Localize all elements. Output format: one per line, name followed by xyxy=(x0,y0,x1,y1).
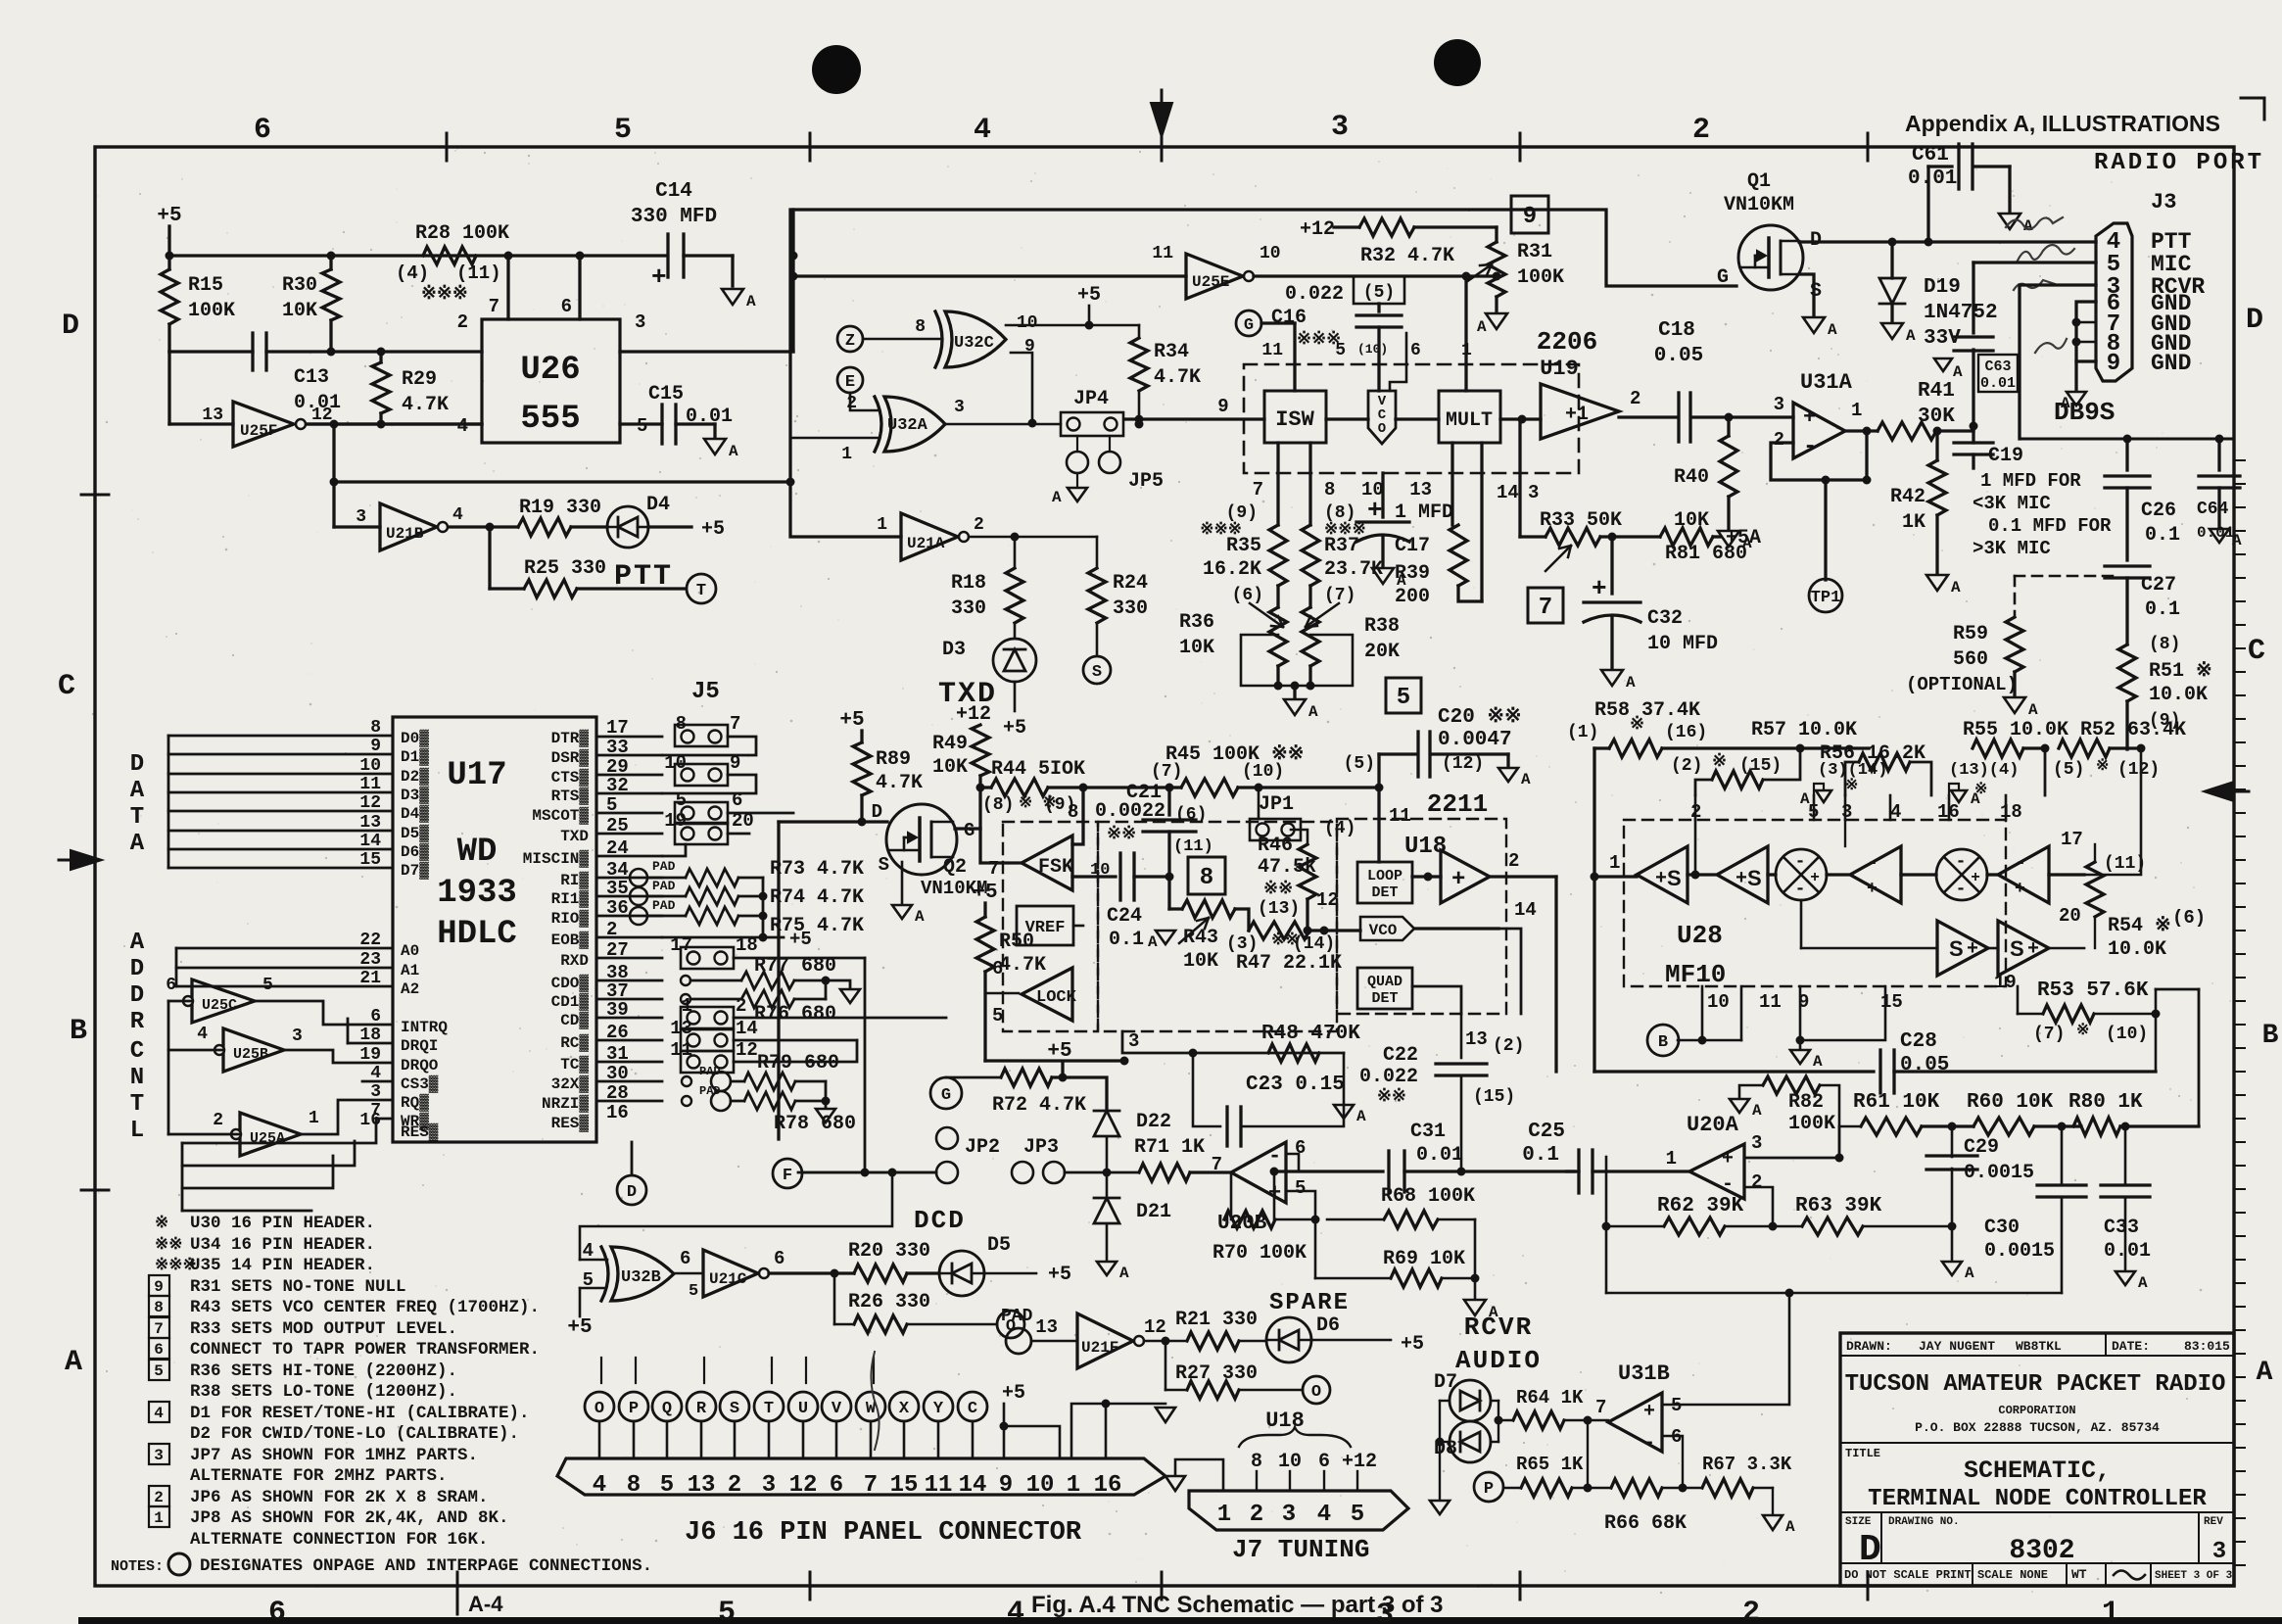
J6 terminal S xyxy=(720,1392,749,1421)
svg-text:JP3: JP3 xyxy=(1023,1136,1059,1159)
svg-text:R42: R42 xyxy=(1890,486,1925,508)
optional R59 dashed link xyxy=(2015,575,2116,578)
svg-text:A: A xyxy=(1477,318,1487,336)
svg-text:A: A xyxy=(1971,790,1980,808)
pot R33 xyxy=(1545,528,1600,546)
svg-text:SCHEMATIC,: SCHEMATIC, xyxy=(1964,1457,2111,1485)
jumper JP4 xyxy=(1061,412,1123,436)
svg-text:3: 3 xyxy=(1774,394,1784,415)
wire U31B output down xyxy=(1587,1420,1589,1488)
svg-text:U18: U18 xyxy=(1265,1409,1305,1433)
svg-text:U28: U28 xyxy=(1677,921,1723,950)
svg-text:+: + xyxy=(1643,1401,1655,1423)
J7 ground loop xyxy=(1175,1459,1223,1491)
svg-text:R31: R31 xyxy=(1517,241,1552,263)
U18 comparator triangle xyxy=(1441,850,1490,903)
mixer 2 xyxy=(1901,873,1936,876)
svg-text:DO NOT SCALE PRINT: DO NOT SCALE PRINT xyxy=(1844,1568,1972,1582)
resistor R37 xyxy=(1302,525,1319,586)
svg-text:U21A: U21A xyxy=(907,535,945,552)
wire CTS▓ stub xyxy=(596,774,662,777)
svg-text:D: D xyxy=(1859,1529,1881,1571)
svg-text:D7: D7 xyxy=(1434,1371,1457,1394)
svg-text:DET: DET xyxy=(1371,990,1398,1007)
svg-text:5: 5 xyxy=(262,976,273,995)
J3 DB9S connector body xyxy=(2096,223,2132,381)
svg-text:6: 6 xyxy=(830,1472,843,1499)
wire U32A out to JP4 xyxy=(945,423,1061,426)
dashed box cal region xyxy=(1098,822,1337,1031)
svg-text:R79 680: R79 680 xyxy=(757,1052,839,1075)
svg-text:23: 23 xyxy=(359,950,381,970)
wire E to U32A xyxy=(850,393,880,410)
wire F net xyxy=(802,1171,936,1174)
svg-text:0.1 MFD FOR: 0.1 MFD FOR xyxy=(1988,515,2112,537)
op amp U20B xyxy=(1231,1142,1286,1203)
svg-text:0.01: 0.01 xyxy=(2104,1240,2151,1263)
svg-text:R36: R36 xyxy=(1179,611,1214,634)
svg-text:+: + xyxy=(1810,869,1820,886)
svg-text:U30 16 PIN HEADER.: U30 16 PIN HEADER. xyxy=(190,1214,375,1233)
svg-text:R78 680: R78 680 xyxy=(774,1113,856,1135)
svg-text:C31: C31 xyxy=(1410,1121,1446,1143)
svg-text:TUCSON AMATEUR PACKET RADIO: TUCSON AMATEUR PACKET RADIO xyxy=(1845,1371,2226,1398)
wire MISCIN to TXD jumper xyxy=(662,844,686,856)
ground at C61 xyxy=(2008,167,2011,212)
svg-text:11: 11 xyxy=(1759,991,1782,1013)
ground floater near C63 xyxy=(1934,358,1952,371)
svg-text:+: + xyxy=(1735,868,1747,890)
svg-text:U26: U26 xyxy=(520,352,580,389)
svg-text:14: 14 xyxy=(359,832,381,851)
svg-text:6: 6 xyxy=(1410,341,1421,360)
svg-text:(2): (2) xyxy=(1493,1036,1524,1056)
inverter U21A xyxy=(901,513,958,560)
svg-text:+: + xyxy=(1803,406,1816,430)
svg-text:10.0K: 10.0K xyxy=(2108,938,2166,961)
svg-text:RXD: RXD xyxy=(560,952,589,970)
pin 11 wire into loop det xyxy=(1377,788,1380,862)
ground after R69 xyxy=(1474,1278,1477,1298)
svg-text:4.7K: 4.7K xyxy=(1154,366,1201,389)
wire DB9S bottom net xyxy=(2020,438,2234,441)
svg-text:11: 11 xyxy=(1389,805,1411,827)
svg-text:100K: 100K xyxy=(1517,266,1564,289)
svg-text:(12): (12) xyxy=(2117,760,2160,780)
Q1 drain wire to J3 PTT xyxy=(1799,240,2096,243)
tick marks above J6 xyxy=(600,1358,602,1383)
ground at D19 xyxy=(1881,323,1903,339)
JP1 jumper xyxy=(1250,819,1301,840)
D7 D8 left bus xyxy=(1440,1400,1450,1402)
svg-text:C: C xyxy=(2248,635,2265,668)
svg-text:1: 1 xyxy=(682,995,692,1017)
svg-text:2: 2 xyxy=(154,1489,164,1506)
svg-text:RES▓: RES▓ xyxy=(401,1122,439,1141)
wire U21B out xyxy=(449,525,518,528)
svg-text:U21B: U21B xyxy=(386,525,424,543)
svg-text:C13: C13 xyxy=(294,366,329,389)
wire R55 junction stubs xyxy=(2044,748,2047,795)
svg-text:R70 100K: R70 100K xyxy=(1212,1242,1307,1265)
svg-text:ALTERNATE CONNECTION FOR 16K.: ALTERNATE CONNECTION FOR 16K. xyxy=(190,1530,489,1550)
svg-text:16.2K: 16.2K xyxy=(1203,558,1261,581)
wire plus input to R61 node xyxy=(1838,1126,1841,1158)
terminal F xyxy=(773,1159,802,1188)
LOCK comparator xyxy=(1022,968,1072,1021)
svg-text:(10): (10) xyxy=(2106,1025,2148,1044)
svg-text:5: 5 xyxy=(1335,341,1346,360)
svg-text:C22: C22 xyxy=(1383,1044,1418,1067)
ground at C15 xyxy=(713,424,716,437)
page corner mark xyxy=(2241,98,2264,119)
svg-text:8: 8 xyxy=(154,1299,164,1316)
svg-text:R28 100K: R28 100K xyxy=(415,222,509,245)
svg-text:J6 16 PIN PANEL CONNECTOR: J6 16 PIN PANEL CONNECTOR xyxy=(685,1518,1082,1548)
resistor R78 xyxy=(731,1100,744,1103)
svg-text:C28: C28 xyxy=(1900,1030,1937,1053)
capacitor C26 xyxy=(2125,439,2128,470)
wire U31B plus input xyxy=(1662,1404,1788,1406)
svg-text:0.1: 0.1 xyxy=(1109,929,1144,951)
ground at Q1 source xyxy=(1803,317,1825,333)
svg-text:+5: +5 xyxy=(839,709,864,732)
svg-text:C18: C18 xyxy=(1658,319,1695,342)
svg-text:TITLE: TITLE xyxy=(1845,1447,1880,1460)
U17 data pin D0▓ xyxy=(168,735,393,738)
wire G to R72 xyxy=(946,1076,1001,1079)
wire MSCOT▓ stub xyxy=(596,812,662,815)
wire loop det to comparator xyxy=(1412,875,1441,878)
svg-text:S: S xyxy=(730,1400,739,1418)
wire U21F out xyxy=(1144,1340,1187,1343)
resistor R41 xyxy=(1878,422,1936,440)
pin9 ground xyxy=(1799,986,1802,1048)
LED D5 xyxy=(939,1251,984,1296)
svg-text:(7): (7) xyxy=(2033,1025,2065,1044)
resistor R72 xyxy=(1001,1069,1052,1086)
XOR gate U32B xyxy=(611,1247,674,1301)
resistor R42 xyxy=(1935,431,1938,460)
svg-text:(6): (6) xyxy=(1232,586,1263,605)
svg-text:R35: R35 xyxy=(1226,535,1261,557)
left zone ticks xyxy=(81,494,109,497)
svg-text:8: 8 xyxy=(370,718,381,738)
svg-text:5: 5 xyxy=(718,1597,736,1624)
svg-text:-: - xyxy=(1795,852,1806,872)
wire R44 to C21 junction xyxy=(1083,786,1169,788)
svg-text:D22: D22 xyxy=(1136,1111,1171,1133)
svg-text:1 MFD FOR: 1 MFD FOR xyxy=(1980,470,2081,492)
svg-text:20: 20 xyxy=(732,810,754,832)
IC U26 555 timer xyxy=(482,319,620,443)
svg-text:10: 10 xyxy=(359,756,381,776)
svg-text:J7 TUNING: J7 TUNING xyxy=(1232,1535,1369,1564)
svg-text:5: 5 xyxy=(660,1472,674,1499)
svg-text:(8): (8) xyxy=(2149,635,2180,654)
svg-text:9: 9 xyxy=(2107,351,2120,377)
svg-text:R26 330: R26 330 xyxy=(848,1291,930,1314)
bottom black scan strip xyxy=(78,1617,2282,1624)
svg-text:C19: C19 xyxy=(1988,445,2023,467)
svg-text:R53 57.6K: R53 57.6K xyxy=(2037,979,2149,1002)
svg-text:(16): (16) xyxy=(1665,723,1707,742)
svg-text:R49: R49 xyxy=(932,733,968,755)
capacitor C13 xyxy=(251,333,254,370)
svg-text:U25F: U25F xyxy=(240,422,277,440)
svg-text:6: 6 xyxy=(154,1341,164,1359)
svg-text:47.5k: 47.5k xyxy=(1258,856,1316,879)
svg-text:(5): (5) xyxy=(1344,754,1375,774)
svg-text:(6): (6) xyxy=(2172,907,2206,929)
svg-text:D6: D6 xyxy=(1316,1314,1340,1337)
resistor R25 xyxy=(490,587,524,590)
svg-text:+12: +12 xyxy=(1342,1451,1377,1473)
ground at C64 xyxy=(2217,488,2220,527)
svg-text:(5): (5) xyxy=(1363,283,1395,303)
CNTL input wires xyxy=(168,1000,192,1003)
svg-text:2: 2 xyxy=(1751,1171,1762,1193)
svg-text:10.0K: 10.0K xyxy=(2149,684,2208,706)
svg-text:※: ※ xyxy=(1712,752,1727,772)
svg-text:D6▓: D6▓ xyxy=(401,842,429,861)
svg-text:LOCK: LOCK xyxy=(1036,988,1077,1007)
svg-text:16: 16 xyxy=(606,1102,629,1123)
svg-text:S: S xyxy=(879,854,889,876)
boxed note 5 xyxy=(1386,678,1421,713)
stage3 inverter xyxy=(1827,873,1850,876)
svg-text:+5: +5 xyxy=(1401,1333,1424,1356)
svg-text:ALTERNATE FOR 2MHZ PARTS.: ALTERNATE FOR 2MHZ PARTS. xyxy=(190,1466,448,1486)
top center alignment arrow xyxy=(1151,103,1172,137)
wire U20B minus input xyxy=(1274,1154,1299,1171)
terminal D xyxy=(617,1175,646,1205)
svg-text:7: 7 xyxy=(1212,1154,1222,1175)
svg-text:+: + xyxy=(1967,938,1978,961)
svg-text:8: 8 xyxy=(1324,479,1335,501)
svg-text:2206: 2206 xyxy=(1537,327,1597,357)
svg-text:NOTES:: NOTES: xyxy=(111,1558,164,1575)
J6 terminal P xyxy=(619,1392,648,1421)
svg-text:+: + xyxy=(1655,868,1667,890)
svg-text:T: T xyxy=(130,1091,144,1118)
wire pin20 R54 net xyxy=(2094,917,2096,948)
wire down to R27 xyxy=(1165,1341,1167,1390)
svg-text:13: 13 xyxy=(1465,1028,1488,1050)
svg-text:C26: C26 xyxy=(2141,500,2176,522)
wire U21C out xyxy=(769,1271,854,1274)
svg-text:TC▓: TC▓ xyxy=(560,1055,589,1074)
svg-text:1: 1 xyxy=(1217,1502,1231,1528)
svg-text:+5: +5 xyxy=(1003,717,1026,740)
svg-text:16: 16 xyxy=(359,1111,381,1130)
svg-text:※※※: ※※※ xyxy=(421,283,468,305)
svg-text:13: 13 xyxy=(202,406,223,425)
svg-text:A1: A1 xyxy=(401,962,419,979)
svg-text:CD▓: CD▓ xyxy=(560,1011,589,1029)
terminal G lower xyxy=(930,1077,962,1109)
pot R31 xyxy=(1495,227,1498,242)
svg-text:3: 3 xyxy=(635,311,645,333)
svg-text:1: 1 xyxy=(1067,1472,1080,1499)
J6 terminal C xyxy=(958,1392,987,1421)
svg-text:A: A xyxy=(1626,674,1636,692)
resistor R44 xyxy=(980,786,991,788)
ground at C17 xyxy=(1372,568,1394,584)
svg-text:2: 2 xyxy=(846,394,857,413)
inverter U25A xyxy=(240,1113,301,1156)
J6 right bracket to gnd xyxy=(1071,1404,1165,1458)
terminal O xyxy=(997,1311,1024,1338)
svg-text:U19: U19 xyxy=(1540,357,1579,381)
svg-text:19: 19 xyxy=(664,810,687,832)
svg-text:G: G xyxy=(1244,316,1254,335)
svg-text:R62 39K: R62 39K xyxy=(1657,1195,1744,1218)
svg-text:330: 330 xyxy=(1113,597,1148,620)
svg-text:-: - xyxy=(1867,852,1878,875)
svg-text:(5): (5) xyxy=(2053,760,2084,780)
svg-text:-: - xyxy=(1956,852,1967,872)
svg-text:7: 7 xyxy=(730,713,740,735)
resistor R68 xyxy=(1273,1171,1276,1219)
svg-text:D: D xyxy=(872,801,882,823)
svg-text:CONNECT TO TAPR POWER TRANSFOR: CONNECT TO TAPR POWER TRANSFORMER. xyxy=(190,1340,540,1360)
svg-text:2: 2 xyxy=(1742,1597,1760,1624)
svg-text:R29: R29 xyxy=(402,368,437,391)
wire R39 pin14 bottom xyxy=(1458,586,1482,601)
svg-text:DRAWING NO.: DRAWING NO. xyxy=(1888,1516,1960,1528)
svg-text:R31 SETS NO-TONE NULL: R31 SETS NO-TONE NULL xyxy=(190,1277,406,1297)
svg-text:R40: R40 xyxy=(1674,466,1709,489)
svg-text:DRQI: DRQI xyxy=(401,1037,438,1055)
svg-text:X: X xyxy=(899,1400,910,1418)
svg-text:S: S xyxy=(1092,663,1102,682)
svg-text:0.1: 0.1 xyxy=(2145,524,2180,547)
svg-text:D4▓: D4▓ xyxy=(401,804,429,823)
mixer 1 xyxy=(1768,873,1776,876)
svg-text:R80 1K: R80 1K xyxy=(2068,1091,2143,1114)
svg-text:※: ※ xyxy=(1630,715,1644,735)
resistor R50 xyxy=(976,917,994,972)
inverter U25B xyxy=(223,1028,284,1072)
wire stage6 out pin20 xyxy=(2049,947,2084,950)
FSK comparator xyxy=(1022,836,1072,890)
resistor R45 xyxy=(1181,779,1238,796)
svg-text:D2▓: D2▓ xyxy=(401,767,429,786)
svg-text:SIZE: SIZE xyxy=(1845,1516,1872,1528)
pad CDO xyxy=(681,976,690,985)
svg-text:10K: 10K xyxy=(282,300,317,322)
svg-text:R68 100K: R68 100K xyxy=(1381,1185,1475,1208)
D7 D8 ground stem xyxy=(1439,1442,1441,1499)
terminal S xyxy=(1083,656,1111,684)
svg-text:+5: +5 xyxy=(973,882,997,904)
svg-text:R82: R82 xyxy=(1788,1091,1824,1114)
wire stage5 to 6 xyxy=(1988,947,1998,950)
wire CDO▓ stub xyxy=(596,979,662,982)
wire RTS▓ stub xyxy=(596,792,662,795)
jumper J5 TXD pair xyxy=(675,823,728,844)
pad CD1 xyxy=(681,994,690,1004)
svg-text:PTT: PTT xyxy=(614,560,673,594)
A-4 sheet label xyxy=(456,1588,459,1614)
pad RI xyxy=(630,869,647,886)
svg-text:DRAWN:: DRAWN: xyxy=(1846,1339,1892,1354)
svg-text:R51 ※: R51 ※ xyxy=(2149,660,2212,683)
wire R40 tap xyxy=(1725,413,1734,422)
svg-text:11: 11 xyxy=(1261,341,1283,360)
svg-text:※: ※ xyxy=(1845,777,1858,794)
svg-text:7: 7 xyxy=(1253,479,1263,501)
resistor R34 xyxy=(1130,338,1148,391)
QUAD DET block xyxy=(1357,968,1412,1009)
svg-text:B: B xyxy=(70,1015,87,1048)
svg-text:C29: C29 xyxy=(1964,1136,1999,1159)
svg-text:U21F: U21F xyxy=(1081,1339,1118,1357)
U18 2211 dashed box xyxy=(1337,819,1506,1014)
svg-text:TXD: TXD xyxy=(560,828,589,845)
wire U25E out to R31 xyxy=(1254,274,1497,277)
wire to U31B plus xyxy=(1788,1293,1791,1405)
svg-text:6: 6 xyxy=(561,296,572,317)
svg-text:TXD: TXD xyxy=(938,678,997,711)
svg-text:R50: R50 xyxy=(999,931,1034,953)
svg-text:5: 5 xyxy=(1295,1177,1306,1199)
svg-text:DATE:: DATE: xyxy=(2112,1339,2150,1354)
wire pin9 into ISW xyxy=(1124,417,1264,420)
ground at R82 xyxy=(1730,1099,1749,1113)
svg-text:J3: J3 xyxy=(2151,190,2176,215)
title block size row divider xyxy=(1840,1511,2234,1513)
wire RIO▓ stub xyxy=(596,915,662,918)
wire U26 net down to U21A xyxy=(790,482,901,537)
wire U31A out xyxy=(1845,429,1878,432)
wire U32C pin9 loop xyxy=(1011,353,1032,423)
U17 address pin A2 xyxy=(176,985,393,988)
svg-text:S: S xyxy=(1747,866,1762,890)
capacitor C19 xyxy=(1954,441,1993,444)
wire Q2 gate to FSK xyxy=(955,829,1022,863)
svg-text:S: S xyxy=(2010,936,2024,961)
svg-text:REV: REV xyxy=(2204,1516,2223,1528)
svg-text:A: A xyxy=(1906,327,1916,345)
svg-text:9: 9 xyxy=(370,737,381,756)
resistor R30 xyxy=(322,269,340,320)
IC U17 WD1933 HDLC box xyxy=(393,717,596,1142)
svg-text:1N4752: 1N4752 xyxy=(1924,302,1998,324)
top zone ticks xyxy=(446,133,449,161)
svg-text:+: + xyxy=(1867,880,1878,899)
diode D22 xyxy=(1094,1111,1119,1136)
svg-text:A: A xyxy=(915,908,925,926)
svg-text:2211: 2211 xyxy=(1427,789,1488,819)
svg-text:17: 17 xyxy=(670,934,692,956)
svg-text:15: 15 xyxy=(890,1472,919,1499)
XOR gate U32C xyxy=(945,311,1006,367)
capacitor C15 xyxy=(660,405,663,444)
svg-text:A: A xyxy=(2028,701,2038,719)
op amp U20A xyxy=(1689,1144,1744,1199)
svg-text:+5: +5 xyxy=(701,518,725,541)
svg-text:10: 10 xyxy=(1017,313,1038,333)
wire C25 node down and long return xyxy=(1605,1157,1608,1293)
capacitor C31 xyxy=(1274,1170,1383,1172)
2206 pin stubs below xyxy=(1276,443,1279,525)
terminal B xyxy=(1647,1025,1679,1056)
J3 gnd bracket xyxy=(2076,302,2096,361)
wire U31B minus input xyxy=(1662,1436,1683,1488)
svg-text:13: 13 xyxy=(670,1018,692,1039)
